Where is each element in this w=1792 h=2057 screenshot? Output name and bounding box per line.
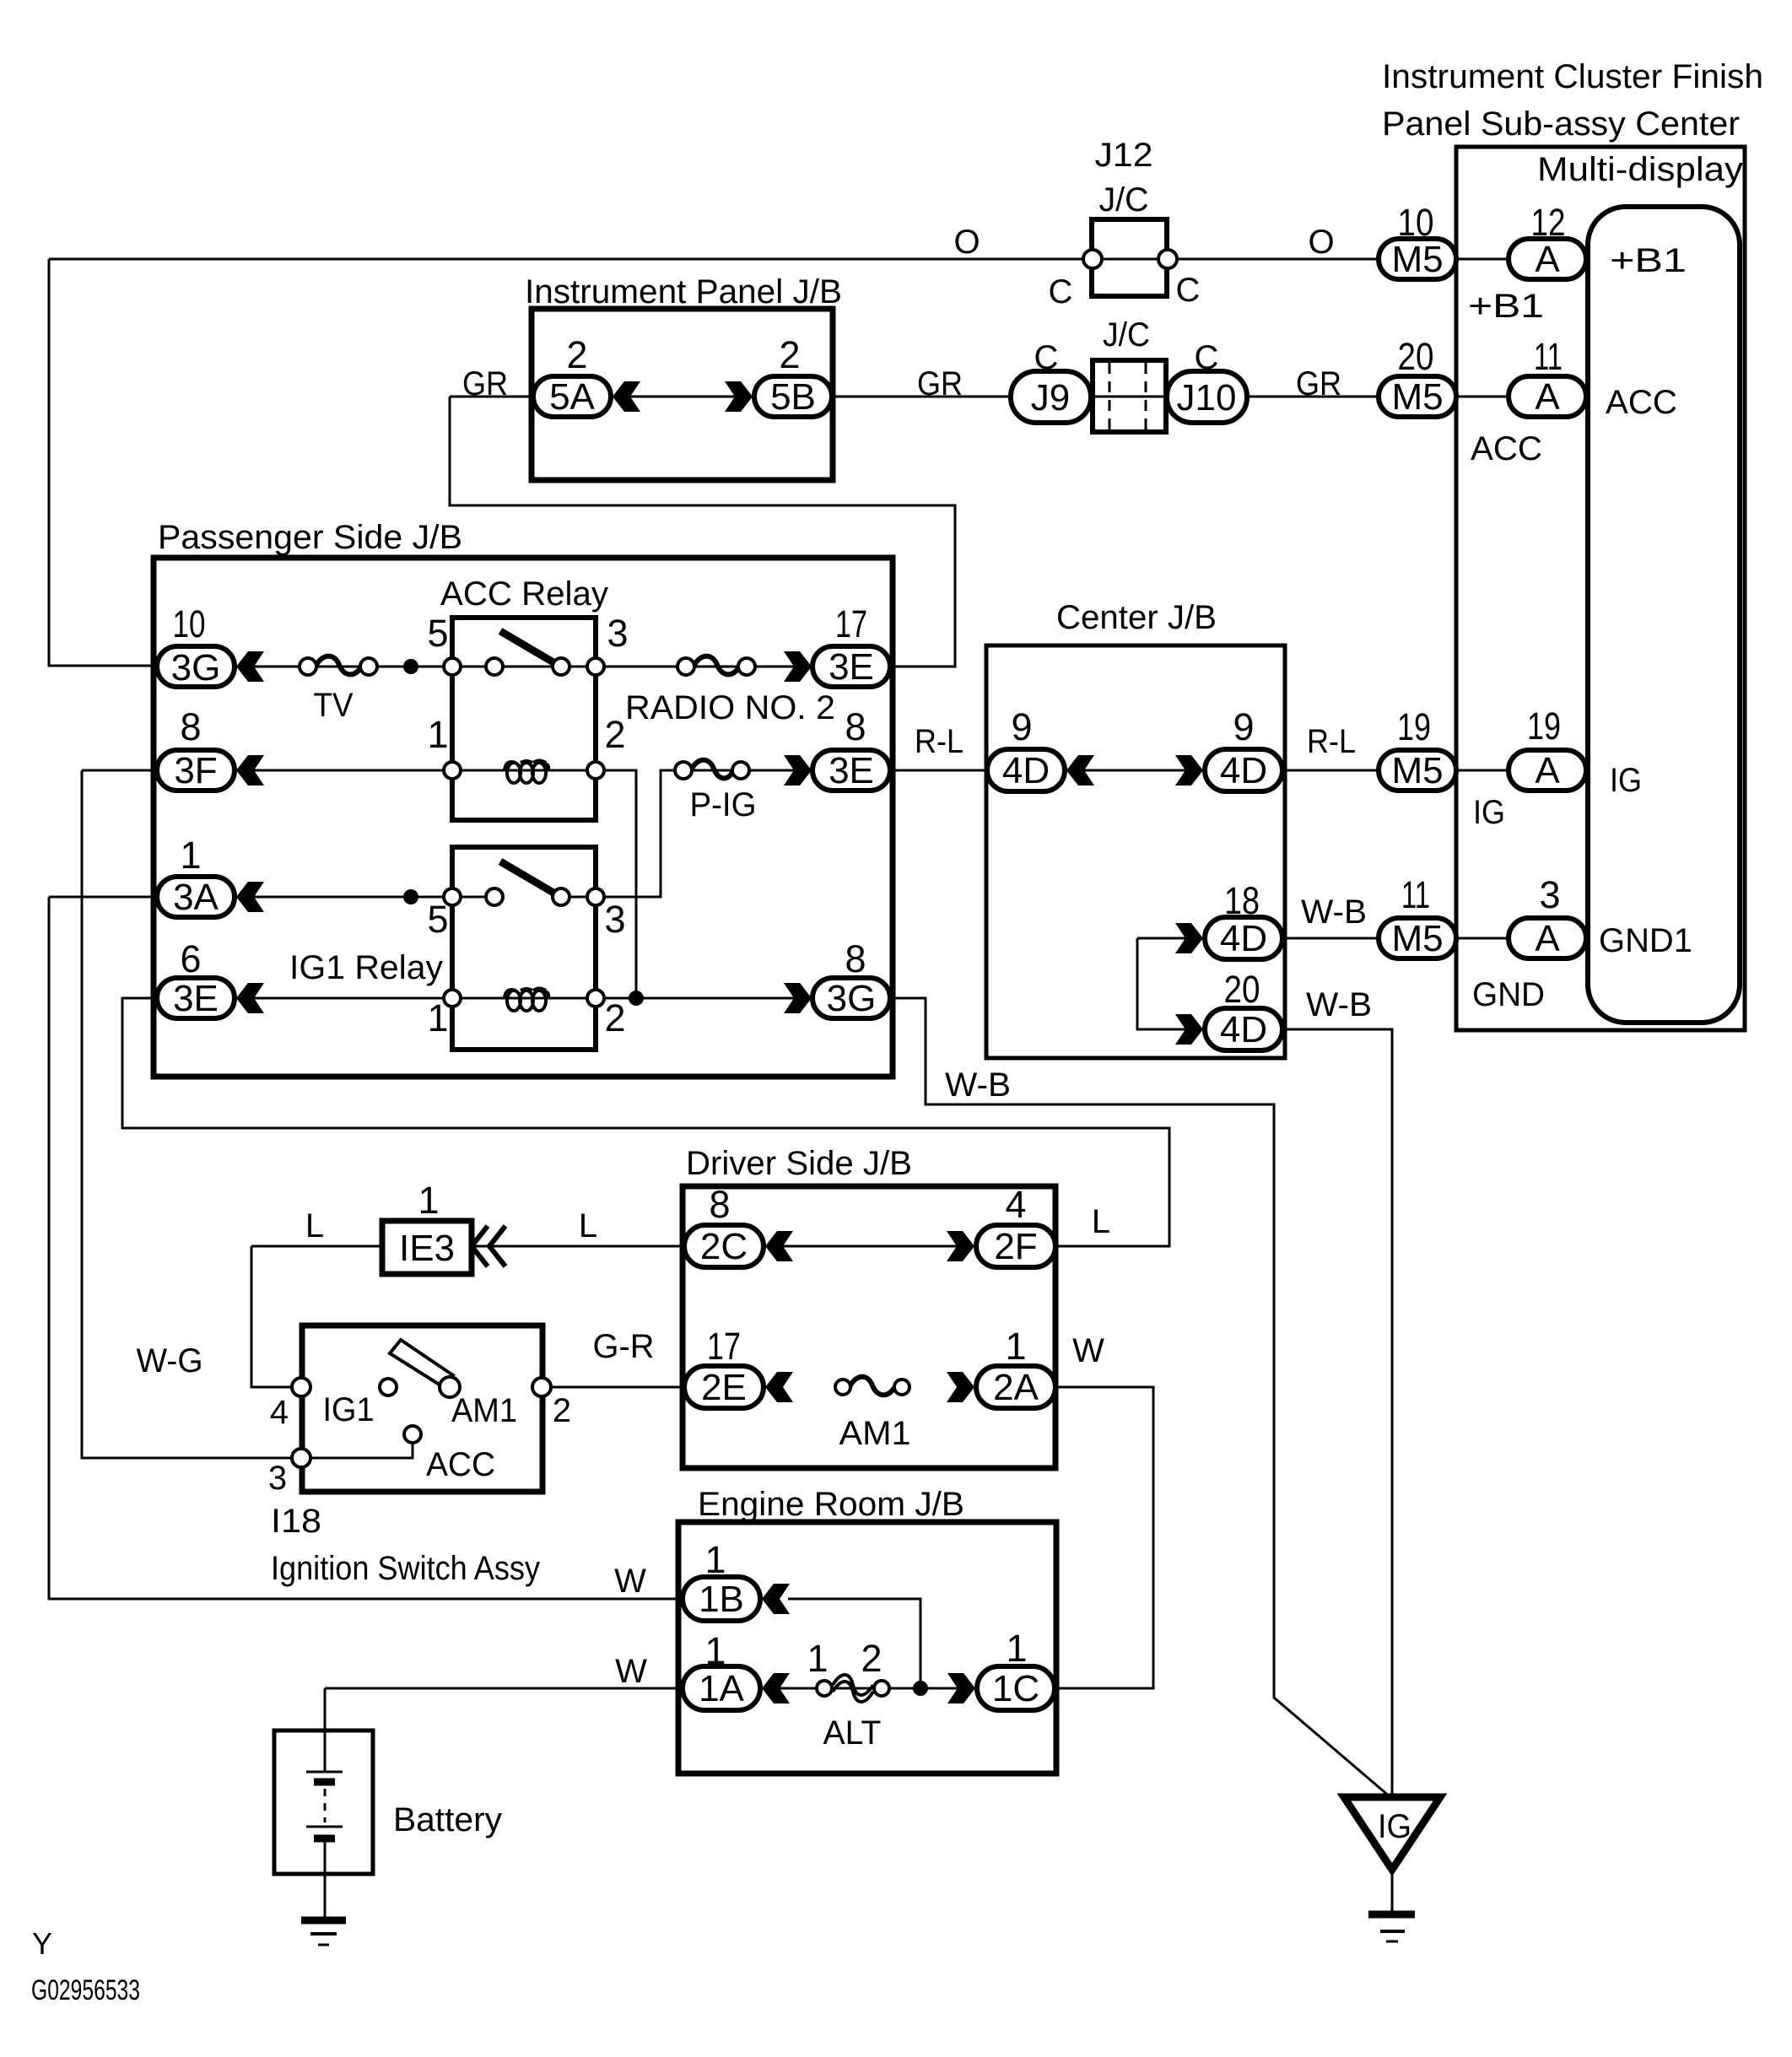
svg-text:3: 3 [268, 1460, 287, 1497]
svg-text:Instrument Panel J/B: Instrument Panel J/B [525, 273, 842, 310]
svg-text:2: 2 [604, 996, 625, 1039]
svg-text:Multi-display: Multi-display [1537, 151, 1743, 188]
svg-text:M5: M5 [1391, 750, 1443, 791]
svg-text:A: A [1535, 376, 1560, 418]
svg-text:Passenger Side J/B: Passenger Side J/B [158, 519, 462, 556]
svg-text:11: 11 [1534, 335, 1563, 378]
svg-text:3A: 3A [173, 877, 219, 918]
svg-text:1: 1 [427, 713, 448, 756]
svg-text:4: 4 [1005, 1183, 1026, 1226]
svg-text:Y: Y [32, 1926, 52, 1961]
svg-text:ACC: ACC [1606, 384, 1677, 421]
svg-text:IG1 Relay: IG1 Relay [289, 949, 443, 986]
svg-text:TV: TV [314, 687, 354, 724]
svg-text:11: 11 [1401, 873, 1430, 916]
svg-text:W-B: W-B [1301, 894, 1367, 931]
svg-text:P-IG: P-IG [690, 786, 757, 823]
svg-text:W-B: W-B [1306, 986, 1372, 1023]
svg-text:C: C [1034, 339, 1059, 376]
svg-text:19: 19 [1397, 705, 1431, 748]
svg-text:2: 2 [779, 333, 800, 376]
svg-text:5: 5 [427, 898, 448, 941]
svg-text:12: 12 [1531, 201, 1566, 244]
svg-text:5: 5 [427, 612, 448, 655]
svg-text:1: 1 [1005, 1325, 1026, 1368]
svg-text:1A: 1A [699, 1668, 744, 1709]
svg-text:Driver Side J/B: Driver Side J/B [686, 1145, 912, 1182]
svg-text:W-B: W-B [945, 1066, 1011, 1104]
svg-text:Panel Sub-assy Center: Panel Sub-assy Center [1382, 105, 1740, 143]
svg-text:8: 8 [180, 705, 201, 748]
svg-text:R-L: R-L [1307, 723, 1356, 760]
svg-text:IG: IG [1378, 1808, 1411, 1845]
svg-text:ACC: ACC [426, 1446, 495, 1483]
svg-text:I18: I18 [271, 1503, 321, 1540]
svg-text:4D: 4D [1002, 750, 1050, 791]
svg-text:C: C [1176, 272, 1201, 309]
svg-text:M5: M5 [1391, 918, 1443, 959]
svg-text:GR: GR [462, 365, 508, 402]
svg-text:3E: 3E [829, 750, 874, 791]
svg-text:1: 1 [704, 1538, 726, 1581]
svg-text:2A: 2A [993, 1367, 1039, 1408]
svg-text:9: 9 [1233, 705, 1254, 748]
svg-text:IG1: IG1 [323, 1391, 375, 1428]
svg-text:4D: 4D [1220, 918, 1267, 959]
svg-text:J/C: J/C [1099, 181, 1149, 219]
svg-text:J9: J9 [1031, 377, 1070, 418]
svg-text:RADIO NO. 2: RADIO NO. 2 [625, 689, 835, 726]
svg-text:IE3: IE3 [399, 1228, 455, 1269]
svg-text:C: C [1049, 273, 1073, 310]
svg-text:Instrument Cluster Finish: Instrument Cluster Finish [1382, 58, 1763, 95]
svg-text:A: A [1535, 918, 1560, 959]
svg-text:20: 20 [1224, 968, 1260, 1011]
svg-text:17: 17 [707, 1325, 741, 1368]
svg-text:4D: 4D [1220, 750, 1267, 791]
svg-text:1: 1 [427, 996, 448, 1039]
svg-text:2: 2 [861, 1637, 882, 1680]
svg-text:6: 6 [180, 937, 201, 980]
svg-text:1: 1 [180, 834, 201, 877]
svg-text:3G: 3G [171, 647, 221, 688]
svg-text:+B1: +B1 [1610, 242, 1687, 279]
svg-text:IG: IG [1610, 762, 1642, 799]
svg-text:GND: GND [1472, 976, 1545, 1013]
svg-text:Center J/B: Center J/B [1056, 599, 1217, 636]
svg-text:ACC: ACC [1471, 430, 1542, 467]
svg-text:2: 2 [566, 333, 587, 376]
svg-text:L: L [579, 1207, 597, 1244]
svg-text:3E: 3E [173, 978, 219, 1019]
svg-text:4: 4 [270, 1394, 289, 1431]
svg-text:+B1: +B1 [1468, 288, 1544, 325]
svg-text:19: 19 [1527, 705, 1561, 748]
svg-text:3G: 3G [827, 978, 877, 1019]
svg-text:1B: 1B [699, 1579, 744, 1620]
svg-text:J/C: J/C [1103, 316, 1150, 354]
svg-text:G-R: G-R [593, 1328, 655, 1365]
svg-text:M5: M5 [1391, 376, 1443, 418]
svg-text:L: L [1092, 1203, 1110, 1240]
svg-text:Battery: Battery [393, 1801, 502, 1838]
svg-text:GND1: GND1 [1599, 922, 1692, 959]
svg-text:G02956533: G02956533 [31, 1974, 140, 2006]
svg-text:W-G: W-G [137, 1342, 203, 1379]
svg-text:3: 3 [604, 898, 625, 941]
svg-text:8: 8 [845, 705, 866, 748]
svg-text:IG: IG [1473, 794, 1505, 831]
svg-text:A: A [1535, 750, 1560, 791]
svg-text:GR: GR [1296, 365, 1341, 402]
svg-text:4D: 4D [1220, 1009, 1267, 1050]
svg-text:A: A [1535, 239, 1560, 280]
svg-text:O: O [953, 224, 980, 261]
svg-text:2E: 2E [701, 1367, 747, 1408]
svg-text:L: L [305, 1207, 324, 1244]
svg-text:3: 3 [607, 612, 628, 655]
svg-text:W: W [615, 1653, 647, 1690]
svg-text:1: 1 [807, 1637, 828, 1680]
svg-text:5B: 5B [770, 376, 816, 418]
svg-text:1: 1 [418, 1179, 439, 1222]
svg-text:3: 3 [1539, 873, 1560, 916]
svg-text:O: O [1308, 224, 1334, 261]
svg-text:C: C [1195, 339, 1219, 376]
svg-text:17: 17 [835, 602, 867, 645]
svg-text:2: 2 [553, 1392, 571, 1429]
svg-text:2C: 2C [700, 1226, 748, 1267]
svg-text:GR: GR [917, 365, 963, 402]
svg-text:3F: 3F [174, 750, 217, 791]
svg-text:5A: 5A [549, 376, 595, 418]
svg-text:J10: J10 [1177, 377, 1237, 418]
svg-text:20: 20 [1398, 335, 1434, 378]
svg-text:8: 8 [709, 1183, 730, 1226]
svg-text:W: W [614, 1563, 646, 1600]
svg-text:1: 1 [1006, 1627, 1027, 1670]
svg-text:2: 2 [604, 713, 625, 756]
svg-text:AM1: AM1 [451, 1392, 517, 1429]
svg-text:R-L: R-L [915, 723, 963, 760]
svg-text:AM1: AM1 [839, 1415, 911, 1452]
svg-text:8: 8 [845, 937, 866, 980]
svg-text:J12: J12 [1095, 137, 1153, 174]
svg-text:10: 10 [1398, 201, 1434, 244]
svg-text:2F: 2F [994, 1226, 1037, 1267]
svg-text:3E: 3E [829, 646, 874, 688]
svg-text:1: 1 [704, 1629, 726, 1672]
svg-text:W: W [1072, 1332, 1104, 1369]
svg-text:18: 18 [1224, 879, 1260, 922]
svg-text:10: 10 [173, 602, 206, 645]
svg-text:Engine Room J/B: Engine Room J/B [698, 1486, 964, 1523]
svg-text:M5: M5 [1391, 239, 1443, 280]
svg-text:ACC Relay: ACC Relay [440, 575, 608, 613]
svg-text:1C: 1C [992, 1668, 1039, 1709]
svg-text:Ignition Switch Assy: Ignition Switch Assy [271, 1550, 540, 1587]
svg-text:9: 9 [1011, 705, 1032, 748]
svg-text:ALT: ALT [823, 1714, 882, 1752]
